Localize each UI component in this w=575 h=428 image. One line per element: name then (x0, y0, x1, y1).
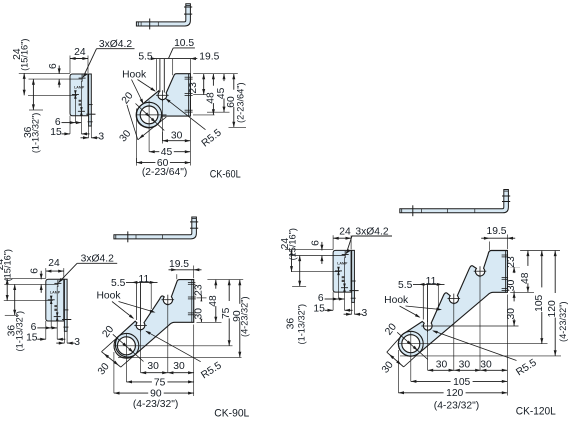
CK-60L hole 1 center cross (79, 77, 86, 79)
CK-120L dim 30 30 30 bottom (506, 295, 508, 396)
svg-text:5.5: 5.5 (138, 51, 153, 62)
CK-120L main view pivot hole (402, 335, 420, 353)
svg-text:30: 30 (480, 360, 492, 371)
CK-60L left extension lines (19, 72, 70, 74)
CK-90L dim 6 top (40, 271, 42, 280)
svg-text:30: 30 (436, 360, 448, 371)
CK-90L dim 3 (thickness) (56, 342, 64, 344)
svg-text:(15/16"): (15/16") (287, 228, 297, 260)
svg-text:6: 6 (311, 240, 322, 246)
CK-90L bend line inner edge (191, 280, 193, 323)
CK-60L dim 60 bottom (136, 158, 138, 166)
CK-90L dim 24 width (45, 268, 47, 278)
CK-120L extension lines below side view (344, 257, 346, 310)
CK-90L dim 15 (37, 338, 46, 340)
svg-text:(4-23/32"): (4-23/32") (133, 399, 178, 410)
CK-60L main view pivot hole (140, 106, 158, 124)
svg-text:120: 120 (446, 388, 463, 399)
CK-60L top view hole tick (149, 19, 151, 30)
svg-text:LAMP: LAMP (74, 85, 85, 89)
CK-120L dim 6 top (321, 242, 323, 251)
svg-text:CK-90L: CK-90L (214, 407, 249, 419)
CK-60L dim 24 (15/16in) vertical (23, 73, 25, 95)
svg-text:11: 11 (139, 274, 150, 285)
svg-text:Hook: Hook (96, 291, 121, 302)
CK-90L hole 3 center cross (54, 316, 61, 318)
CK-90L main view body (115, 280, 193, 357)
CK-90L dim 19.5 (176, 274, 178, 279)
CK-90L main view pivot hole (117, 337, 135, 355)
CK-90L strip hole center tick (62, 319, 71, 321)
svg-text:30: 30 (506, 308, 517, 320)
CK-60L strip hole center tick (86, 113, 95, 115)
svg-text:30: 30 (193, 308, 204, 320)
CK-60L bend line inner edge (187, 74, 189, 116)
CK-120L side view edge strip (352, 250, 355, 302)
svg-text:105: 105 (453, 377, 470, 388)
svg-text:6: 6 (30, 268, 41, 274)
svg-text:Hook: Hook (384, 295, 409, 306)
CK-120L dim 105 vertical (541, 251, 543, 344)
CK-120L slot extension lines to bottom (427, 331, 429, 371)
CK-120L hole 2 center cross (335, 270, 342, 272)
svg-text:19.5: 19.5 (199, 51, 219, 62)
svg-text:(15/16"): (15/16") (19, 39, 29, 71)
svg-text:15: 15 (50, 127, 62, 138)
svg-text:75: 75 (221, 307, 232, 319)
svg-text:(15/16"): (15/16") (3, 249, 13, 281)
CK-60L main view body (136, 74, 190, 128)
CK-60L dim 23 vertical (203, 74, 205, 95)
CK-120L slot 1 horizontal extension right (434, 325, 519, 327)
svg-text:3: 3 (74, 337, 80, 348)
CK-120L side view plate (333, 250, 351, 292)
CK-120L right extension lines (510, 250, 560, 252)
svg-text:30: 30 (506, 279, 517, 291)
CK-90L body left extension line (113, 352, 115, 393)
CK-90L side view edge strip (64, 279, 67, 331)
CK-120L underside edge extension (404, 353, 419, 367)
svg-text:5.5: 5.5 (111, 278, 126, 289)
CK-120L dim 105 bottom (411, 380, 508, 382)
CK-90L pivot hole center lines (115, 345, 233, 347)
svg-text:48: 48 (520, 272, 531, 284)
CK-60L side view edge strip (89, 74, 92, 126)
svg-text:23: 23 (506, 256, 517, 268)
CK-60L angle 20 leader with arrows (136, 104, 165, 131)
svg-text:(1-13/32"): (1-13/32") (31, 113, 41, 154)
CK-90L dim 90 (4-23/32in) vertical (239, 280, 241, 358)
CK-90L left extension lines (5, 278, 46, 280)
CK-120L notch 3 center cross (474, 270, 487, 272)
CK-120L top view hole tick (412, 205, 414, 216)
CK-120L strip hole center tick (349, 290, 358, 292)
CK-90L top view end caps (115, 235, 117, 239)
CK-120L notch 2 center cross (448, 298, 461, 300)
CK-90L extension lines below side view (56, 286, 58, 339)
CK-60L dim 36 (1-13/32in) vertical (32, 79, 34, 110)
CK-120L top view bent strip (400, 190, 509, 213)
CK-60L dim 24 width (69, 56, 71, 74)
svg-text:30: 30 (147, 361, 159, 372)
CK-60L right extension lines (193, 73, 238, 75)
CK-120L lobe outer circle (398, 331, 423, 356)
CK-90L notch 2 center cross (162, 299, 175, 301)
CK-90L angle 20 leader with arrows (113, 334, 144, 361)
CK-60L dim 15 (62, 133, 71, 135)
CK-90L dim 75 bottom (126, 381, 193, 383)
svg-text:24: 24 (339, 226, 351, 237)
CK-120L top dimension line 5.5 / 11 (413, 283, 445, 285)
svg-text:24: 24 (74, 47, 86, 58)
CK-90L flange hole ticks on edge (188, 281, 196, 283)
CK-60L dim 6 (hole offset) (62, 122, 76, 124)
CK-120L top view end caps (401, 209, 403, 213)
CK-120L slant edge extension (387, 334, 403, 352)
CK-60L extension lines below side view (80, 81, 82, 134)
svg-text:3: 3 (362, 308, 368, 319)
svg-text:120: 120 (547, 300, 558, 317)
svg-text:5.5: 5.5 (398, 280, 413, 291)
CK-60L dim 48 vertical (212, 74, 214, 115)
svg-text:Hook: Hook (122, 70, 147, 81)
CK-90L angle 30 dimension line (102, 352, 121, 367)
CK-120L dim 24 width (332, 235, 334, 249)
CK-60L slot extension line (161, 100, 163, 141)
svg-text:23: 23 (193, 284, 204, 296)
CK-60L top view bent strip (136, 4, 190, 26)
svg-text:CK-120L: CK-120L (516, 406, 556, 418)
CK-60L top dimension line 5.5 / 19.5 (151, 58, 197, 60)
svg-text:30: 30 (173, 361, 185, 372)
CK-120L body left extension line (397, 350, 399, 393)
svg-text:(2-23/64"): (2-23/64") (142, 167, 187, 178)
CK-120L hook leader arrows (400, 306, 420, 317)
CK-90L top dimension line 5.5 / 11 (126, 281, 158, 283)
CK-90L slant edge extension (102, 336, 119, 351)
CK-90L hook leader arrows (112, 302, 133, 319)
CK-120L dim 6 (hole offset) (325, 298, 339, 300)
svg-text:(4-23/32"): (4-23/32") (434, 401, 479, 412)
svg-text:(2-23/64"): (2-23/64") (236, 82, 246, 123)
CK-120L dim 36 (1-13/32in) vertical (299, 256, 301, 287)
CK-120L top view flange hole ticks (502, 195, 510, 197)
svg-text:24: 24 (48, 258, 60, 269)
CK-120L dim 15 (325, 309, 334, 311)
svg-text:3: 3 (98, 132, 104, 143)
CK-90L dim 23 / 30 chain vertical (200, 280, 202, 298)
CK-60L hook leader arrows (138, 80, 156, 92)
svg-text:23: 23 (188, 82, 199, 94)
CK-60L R5.5 leader (166, 99, 206, 130)
CK-120L keyhole slot 1 center cross (421, 325, 434, 327)
CK-120L angle 30 dimension line (387, 352, 404, 367)
svg-text:(4-23/32"): (4-23/32") (240, 296, 250, 337)
CK-60L dim 3 (thickness) (81, 137, 89, 139)
CK-120L dim 23 / 30 / 30 chain vertical (513, 251, 515, 267)
CK-90L dim 30 30 bottom (193, 325, 195, 397)
CK-120L hole 1 center cross (342, 254, 349, 256)
CK-120L bend line inner edge (505, 251, 507, 293)
CK-120L top dim extension lines (422, 284, 424, 319)
CK-60L dim 45 bottom (149, 151, 190, 153)
CK-90L top view flange hole ticks (190, 221, 198, 223)
CK-90L underside edge extension (121, 355, 135, 367)
svg-text:105: 105 (534, 294, 545, 311)
svg-text:(4-23/32"): (4-23/32") (558, 301, 568, 342)
CK-120L dim 24 (15/16in) vertical (291, 250, 293, 272)
CK-60L dim 45 vertical (223, 74, 225, 113)
CK-90L top view bent strip (114, 217, 196, 239)
CK-60L top view flange hole ticks (184, 6, 192, 8)
CK-90L dim 75 vertical (228, 280, 230, 346)
CK-120L dim 3 (thickness) (344, 313, 352, 315)
CK-90L hole 1 center cross (54, 282, 61, 284)
CK-60L dim 6 top (58, 66, 60, 75)
svg-text:75: 75 (154, 377, 166, 388)
CK-120L hole 3 center cross (341, 287, 348, 289)
CK-90L dim 24 (15/16in) vertical (6, 279, 8, 301)
svg-text:15: 15 (313, 303, 325, 314)
CK-120L R5.5 leader (433, 331, 516, 361)
svg-text:30: 30 (171, 130, 183, 141)
svg-text:LAMP: LAMP (50, 291, 61, 295)
CK-90L dim 6 (hole offset) (37, 327, 51, 329)
svg-text:45: 45 (161, 147, 173, 158)
svg-text:19.5: 19.5 (169, 259, 189, 270)
CK-90L keyhole slot 1 center cross (134, 325, 147, 327)
CK-90L top view hole tick (127, 231, 129, 242)
svg-text:30: 30 (459, 360, 471, 371)
CK-90L dim 90 bottom (114, 392, 194, 394)
CK-60L top view end caps (137, 22, 139, 26)
CK-60L side view plate (70, 74, 88, 116)
CK-60L hole 3 center cross (78, 110, 85, 112)
CK-120L dim 19.5 (489, 242, 491, 251)
svg-text:48: 48 (205, 92, 216, 104)
CK-90L top dim extension lines (135, 282, 137, 320)
svg-text:(1-13/32"): (1-13/32") (297, 304, 307, 345)
CK-120L flange hole ticks on edge (502, 254, 510, 256)
svg-text:19.5: 19.5 (486, 226, 506, 237)
CK-90L dim 36 (1-13/32in) vertical (14, 284, 16, 315)
svg-text:11: 11 (426, 276, 437, 287)
svg-text:(1-13/32"): (1-13/32") (15, 311, 25, 352)
CK-120L pivot hole center lines (399, 343, 548, 345)
CK-60L flange hole ticks on edge (185, 76, 193, 78)
svg-text:15: 15 (26, 332, 38, 343)
CK-90L side view plate (46, 279, 64, 321)
CK-90L lobe outer circle (114, 333, 139, 358)
svg-text:90: 90 (150, 389, 162, 400)
CK-90L dim 48 vertical (215, 280, 217, 323)
CK-120L dim 48 vertical (527, 251, 529, 293)
CK-90L slot extension lines to bottom (140, 330, 142, 372)
CK-90L hole 2 center cross (48, 299, 55, 301)
svg-text:CK-60L: CK-60L (210, 168, 241, 180)
svg-text:48: 48 (208, 295, 219, 307)
CK-60L dim 60 (2-23/64in) vertical (233, 74, 235, 128)
CK-120L dim 120 vertical (554, 251, 556, 356)
CK-60L body left extension line (136, 109, 138, 163)
svg-text:6: 6 (48, 63, 59, 69)
svg-text:LAMP: LAMP (337, 262, 348, 266)
CK-60L dim 30 bottom (161, 132, 163, 144)
CK-90L right extension lines (197, 279, 244, 281)
CK-60L angle 30 dimension lines (138, 117, 167, 140)
CK-120L angle 20 leader with arrows (397, 332, 428, 359)
svg-text:36: 36 (286, 318, 297, 330)
CK-60L pivot hole center lines (137, 114, 167, 116)
CK-60L hole 2 center cross (72, 94, 79, 96)
CK-60L keyhole slot center cross (156, 94, 169, 96)
CK-90L R5.5 leader (146, 331, 201, 361)
CK-120L main view body (398, 251, 507, 357)
CK-120L left extension lines (285, 249, 333, 251)
CK-60L top dim extension lines (155, 59, 157, 91)
CK-120L dim 120 bottom (398, 392, 507, 394)
CK-60L lobe outer circle (137, 102, 162, 127)
